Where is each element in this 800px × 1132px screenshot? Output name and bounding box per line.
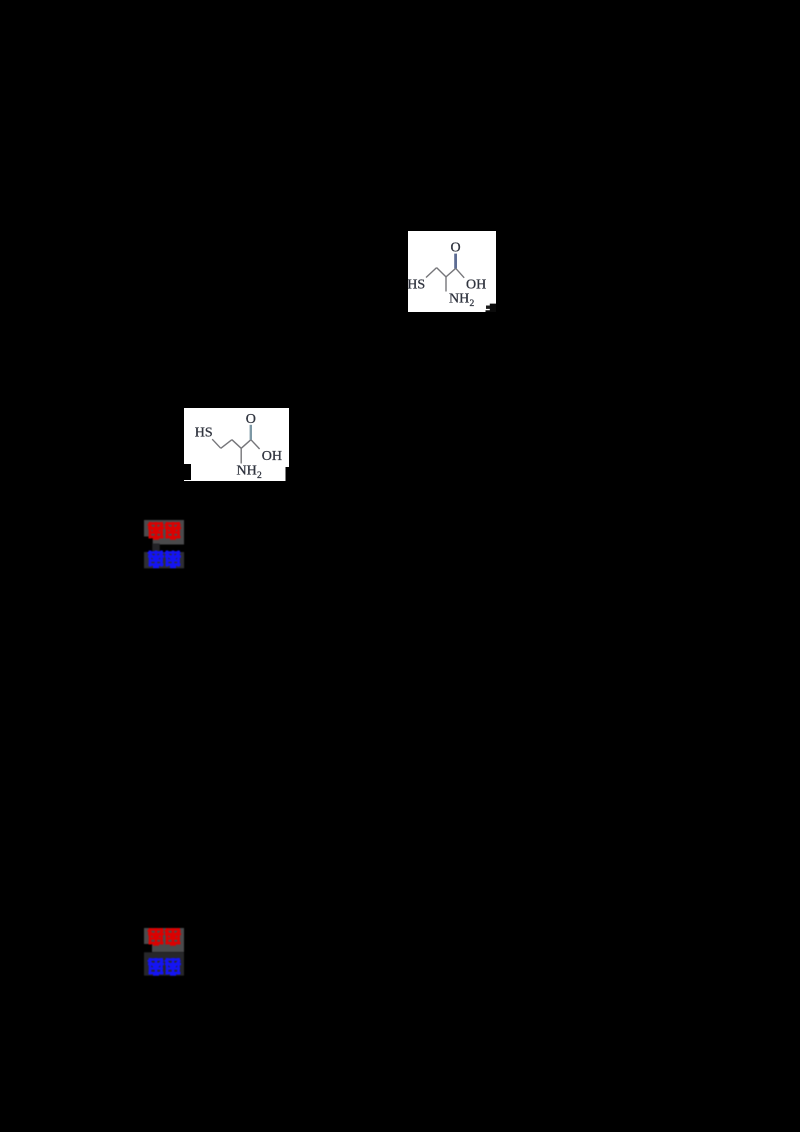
svg-text:2: 2	[257, 470, 262, 480]
bond CH2-CH alpha	[437, 268, 446, 277]
blue analysis tag	[144, 952, 184, 975]
bond S-CH2	[212, 439, 221, 448]
dark gap block	[152, 544, 159, 553]
svg-text:O: O	[451, 241, 461, 256]
bond CH2-CHalpha	[232, 439, 241, 448]
bond S-CH2	[426, 268, 437, 278]
ragged bottom-right edge of pasted image	[286, 467, 290, 481]
bond CHalpha-COOH	[241, 439, 251, 448]
svg-text:OH: OH	[466, 278, 486, 293]
blue analysis tag	[144, 552, 184, 568]
bond C-N	[445, 277, 447, 292]
svg-text:HS: HS	[408, 277, 425, 292]
bond C-N	[240, 448, 242, 463]
svg-text:HS: HS	[195, 425, 213, 440]
svg-text:NH: NH	[449, 292, 469, 307]
double bond C=O	[250, 424, 252, 439]
svg-text:O: O	[246, 412, 256, 427]
black notch over bottom-left of box B	[184, 464, 191, 480]
svg-text:OH: OH	[262, 448, 282, 463]
bond CHalpha-COOH	[446, 268, 456, 277]
black comma mark bottom-right	[486, 304, 497, 312]
label pair 1 : red answer tag	[144, 519, 185, 570]
svg-text:NH: NH	[237, 463, 257, 478]
bond C-OH	[456, 268, 465, 278]
structure image A (cysteine) white box	[408, 231, 496, 312]
structure image B (homocysteine) white box	[184, 408, 289, 481]
bond CH2-CH2	[221, 439, 232, 448]
svg-text:2: 2	[470, 299, 475, 309]
bond C-OH	[251, 439, 260, 448]
double bond C=O	[454, 254, 457, 269]
label pair 2 : red answer tag	[144, 926, 185, 977]
